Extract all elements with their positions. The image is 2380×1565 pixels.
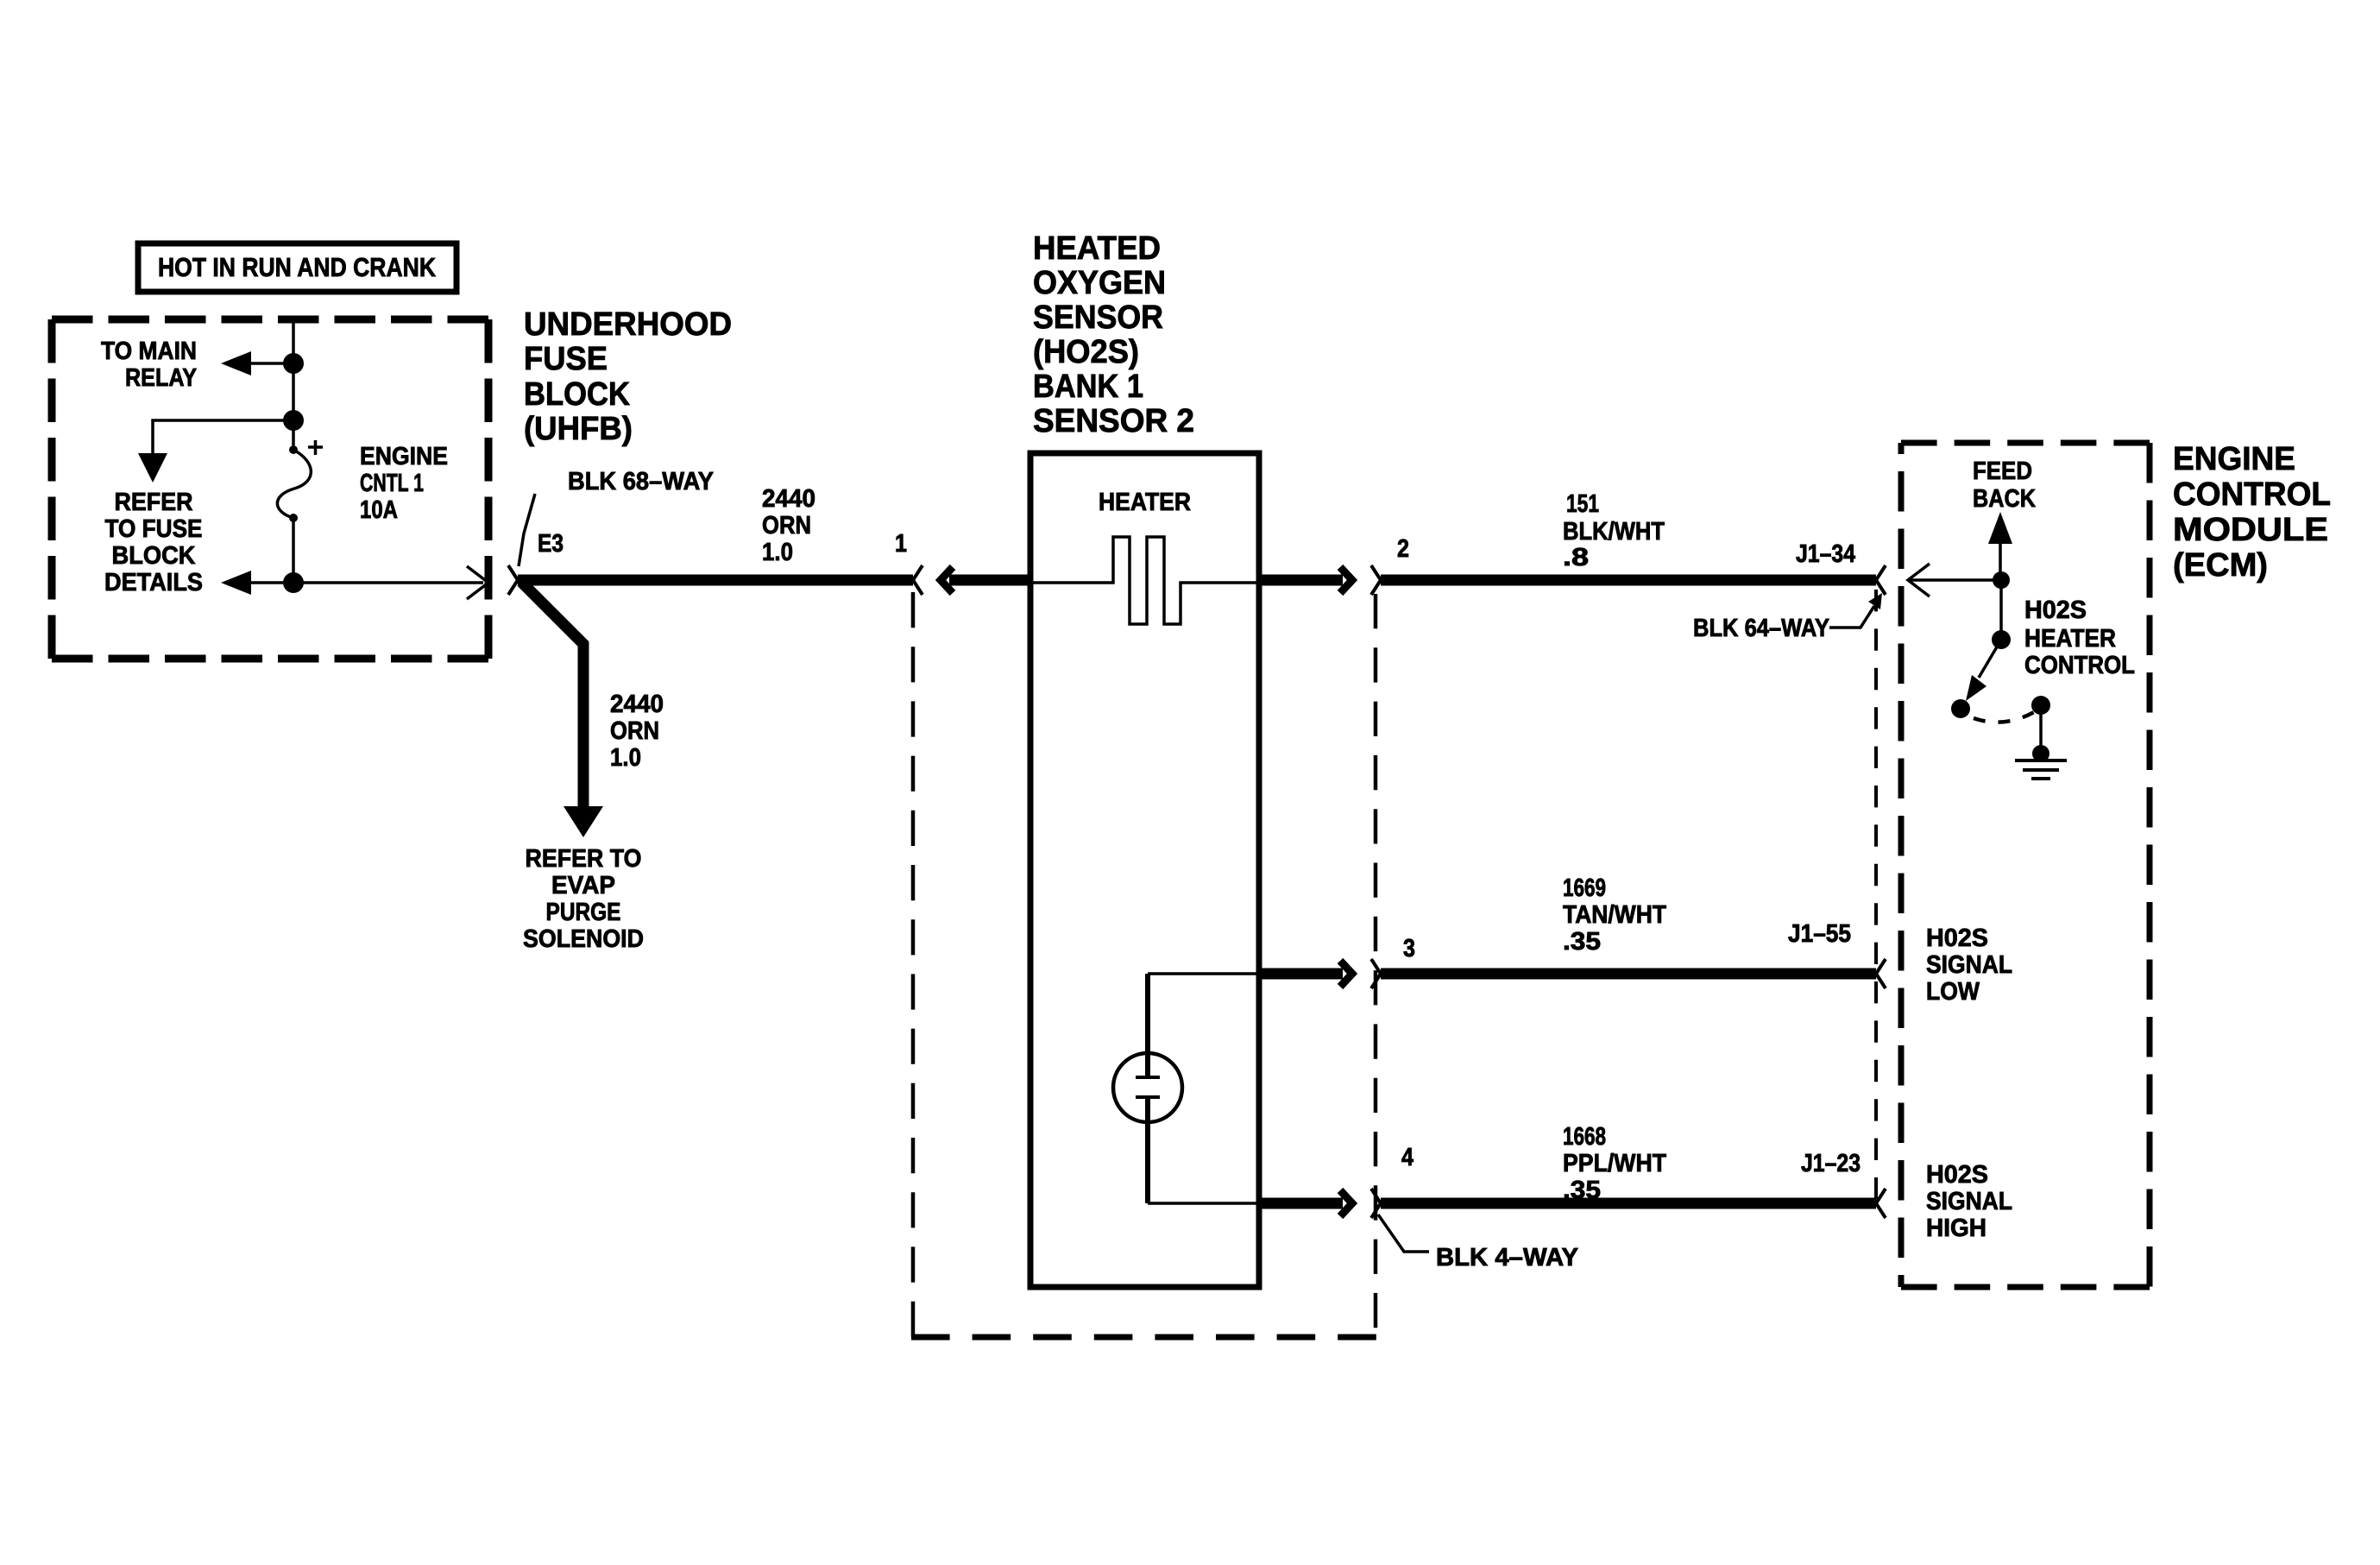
- wire pin3 sensor internal: [1148, 972, 1262, 975]
- svg-text:J1–23: J1–23: [1801, 1150, 1861, 1177]
- connector chevron at E3: [508, 565, 518, 595]
- svg-text:CNTL 1: CNTL 1: [360, 470, 424, 497]
- node feedback junction: [1993, 571, 2010, 589]
- arrow pin4 pointing right: [1340, 1190, 1352, 1216]
- svg-text:BLK 68–WAY: BLK 68–WAY: [568, 468, 714, 495]
- wire pin3 sensor to arrow: [1262, 969, 1343, 980]
- svg-text:1.0: 1.0: [762, 539, 793, 566]
- svg-text:1: 1: [895, 530, 907, 558]
- svg-text:10A: 10A: [360, 496, 398, 524]
- ECM feedback line with open arrow: [1908, 578, 2001, 582]
- wire pin1 inside connector: [949, 575, 1029, 586]
- svg-text:(HO2S): (HO2S): [1033, 334, 1139, 370]
- label H02S SIGNAL LOW: [1926, 924, 2012, 1006]
- svg-text:3: 3: [1403, 935, 1415, 962]
- open arrow at fuse block edge: [467, 566, 488, 599]
- svg-text:H02S: H02S: [1926, 924, 1988, 952]
- svg-text:PURGE: PURGE: [546, 899, 621, 926]
- HO2S sensor box: [1030, 453, 1259, 1287]
- svg-text:ORN: ORN: [610, 717, 659, 745]
- svg-text:J1–34: J1–34: [1796, 540, 1855, 568]
- callout line BLK 68-WAY: [519, 494, 535, 566]
- wire 151 BLK/WHT harness run: [1381, 575, 1876, 586]
- svg-text:PPL/WHT: PPL/WHT: [1563, 1150, 1666, 1177]
- wire B+ vertical bus in fuse block: [292, 319, 295, 445]
- svg-text:UNDERHOOD: UNDERHOOD: [524, 306, 732, 343]
- battery cell sensing element: [1113, 974, 1182, 1203]
- svg-text:H02S: H02S: [2024, 596, 2087, 624]
- svg-text:FEED: FEED: [1973, 458, 2032, 485]
- label 1669 TAN/WHT .35: [1563, 874, 1666, 956]
- wire 2440 ORN branch to EVAP: [521, 582, 583, 810]
- label ENGINE CNTL 1 10A: [360, 443, 448, 524]
- fuse ENGINE CNTL 1 symbol: [277, 440, 323, 522]
- chevron at J1-23 harness end: [1876, 1189, 1886, 1218]
- label H02S SIGNAL HIGH: [1926, 1161, 2012, 1242]
- svg-text:TAN/WHT: TAN/WHT: [1563, 901, 1666, 929]
- svg-text:BLK 64–WAY: BLK 64–WAY: [1693, 615, 1829, 642]
- label ENGINE CONTROL MODULE (ECM): [2173, 441, 2331, 584]
- svg-text:ORN: ORN: [762, 512, 811, 540]
- wire down-left to refer arrow: [153, 420, 293, 458]
- node junction to fuse block details: [283, 410, 304, 431]
- callout line BLK 4-WAY: [1378, 1215, 1429, 1252]
- svg-text:2: 2: [1397, 535, 1409, 563]
- svg-text:.35: .35: [1563, 1177, 1601, 1204]
- arrow to EVAP purge solenoid: [564, 806, 603, 837]
- svg-text:E3: E3: [538, 530, 564, 558]
- chevron at pin2 harness start: [1371, 565, 1381, 595]
- node junction to main relay: [283, 353, 304, 374]
- wire pin2 sensor to arrow: [1262, 575, 1343, 586]
- svg-text:1.0: 1.0: [610, 744, 641, 772]
- wire to main relay: [243, 362, 293, 365]
- connector chevron at pin1 harness side: [913, 565, 922, 595]
- wire pin4 sensor internal: [1148, 1202, 1262, 1205]
- wire 1668 PPL/WHT harness run: [1381, 1198, 1876, 1209]
- node above ground: [2032, 745, 2049, 762]
- heater element: [1029, 537, 1262, 624]
- svg-text:BLOCK: BLOCK: [112, 542, 196, 570]
- switch contact dot left: [1951, 699, 1970, 718]
- label 151 BLK/WHT .8: [1563, 490, 1665, 571]
- svg-text:SENSOR: SENSOR: [1033, 300, 1163, 336]
- svg-text:MODULE: MODULE: [2173, 512, 2328, 548]
- svg-text:SOLENOID: SOLENOID: [523, 925, 644, 953]
- ECM connector dashed line BLK 64-WAY: [1874, 590, 1878, 1215]
- svg-text:ENGINE: ENGINE: [360, 443, 448, 470]
- arrow to main relay: [221, 351, 251, 375]
- svg-text:4: 4: [1401, 1144, 1414, 1171]
- svg-text:151: 151: [1566, 490, 1599, 518]
- svg-text:REFER: REFER: [115, 489, 193, 516]
- svg-text:ENGINE: ENGINE: [2173, 441, 2295, 477]
- arrow pin2 pointing right: [1340, 567, 1352, 593]
- svg-text:SIGNAL: SIGNAL: [1926, 1188, 2012, 1215]
- svg-text:EVAP: EVAP: [551, 872, 615, 899]
- svg-text:H02S: H02S: [1926, 1161, 1988, 1189]
- svg-text:HEATER: HEATER: [1099, 489, 1191, 516]
- node junction fuse output: [283, 572, 304, 593]
- svg-text:CONTROL: CONTROL: [2024, 652, 2135, 679]
- ground symbol: [2015, 760, 2067, 779]
- svg-text:(UHFB): (UHFB): [524, 411, 633, 447]
- svg-text:1668: 1668: [1563, 1123, 1606, 1151]
- svg-text:HIGH: HIGH: [1926, 1215, 1986, 1242]
- svg-text:HEATED: HEATED: [1033, 230, 1161, 267]
- svg-text:LOW: LOW: [1926, 978, 1980, 1006]
- svg-text:DETAILS: DETAILS: [104, 569, 203, 596]
- chevron at J1-55 harness end: [1876, 959, 1886, 988]
- label REFER TO EVAP PURGE SOLENOID: [523, 845, 644, 953]
- svg-text:BLOCK: BLOCK: [524, 376, 630, 413]
- feedback up arrow: [1999, 542, 2002, 580]
- svg-text:HEATER: HEATER: [2024, 625, 2116, 653]
- svg-text:BACK: BACK: [1973, 485, 2036, 513]
- chevron at J1-34 harness end: [1876, 565, 1886, 595]
- callout line BLK 64-WAY: [1829, 606, 1874, 628]
- svg-text:J1–55: J1–55: [1788, 920, 1851, 948]
- label REFER TO FUSE BLOCK DETAILS: [104, 489, 203, 596]
- wire fuse output to E3: [293, 581, 483, 584]
- sensor connector dashed boundary BLK 4-WAY: [911, 592, 916, 1337]
- wire pin4 sensor to arrow: [1262, 1198, 1343, 1209]
- svg-text:TO MAIN: TO MAIN: [101, 338, 197, 365]
- svg-text:CONTROL: CONTROL: [2173, 476, 2331, 513]
- svg-text:.35: .35: [1563, 928, 1601, 956]
- label 1668 PPL/WHT .35: [1563, 1123, 1666, 1204]
- svg-text:(ECM): (ECM): [2173, 547, 2268, 584]
- svg-text:REFER TO: REFER TO: [526, 845, 642, 873]
- svg-text:2440: 2440: [610, 691, 664, 718]
- underhood fuse block dashed box: [52, 316, 488, 324]
- switch blade with arrow: [1979, 640, 2001, 678]
- wire 2440 ORN main run E3 to pin1: [518, 575, 913, 586]
- wire fuse output left arrow: [243, 581, 293, 584]
- svg-text:BLK 4–WAY: BLK 4–WAY: [1436, 1244, 1578, 1272]
- ECM dashed box: [1901, 440, 2150, 446]
- label H02S HEATER CONTROL: [2024, 596, 2135, 679]
- label TO MAIN RELAY: [101, 338, 197, 392]
- hot-in-run title box: [138, 243, 456, 292]
- svg-text:BLK/WHT: BLK/WHT: [1563, 518, 1665, 546]
- label 2440 ORN 1.0 horizontal run: [762, 485, 815, 566]
- arrow pin1 pointing left: [941, 567, 953, 593]
- wire to ground: [2039, 705, 2043, 754]
- arrow down refer to fuse block: [138, 453, 167, 483]
- svg-text:.8: .8: [1563, 544, 1589, 571]
- svg-text:SIGNAL: SIGNAL: [1926, 951, 2012, 979]
- svg-text:SENSOR 2: SENSOR 2: [1033, 403, 1194, 439]
- label 2440 ORN 1.0 branch: [610, 691, 664, 772]
- wire 1669 TAN/WHT harness run: [1381, 969, 1876, 980]
- svg-text:BANK 1: BANK 1: [1033, 369, 1143, 405]
- arrow pin3 pointing right: [1340, 961, 1352, 987]
- node switch pivot: [1992, 630, 2011, 649]
- label HEATED OXYGEN SENSOR (HO2S) BANK 1 SENSOR 2: [1033, 230, 1194, 439]
- svg-text:2440: 2440: [762, 485, 815, 513]
- svg-text:FUSE: FUSE: [524, 341, 608, 377]
- svg-text:TO FUSE: TO FUSE: [105, 515, 203, 543]
- label FEED BACK: [1973, 458, 2036, 513]
- svg-text:RELAY: RELAY: [125, 364, 197, 392]
- wire node to switch: [1999, 580, 2003, 640]
- dashed switch arc: [1974, 712, 2034, 723]
- svg-text:1669: 1669: [1563, 874, 1606, 902]
- svg-text:HOT IN RUN AND CRANK: HOT IN RUN AND CRANK: [158, 252, 437, 282]
- switch contact dot right: [2031, 696, 2050, 715]
- chevron at pin3 harness start: [1371, 959, 1381, 988]
- chevron at pin4 harness start: [1371, 1189, 1381, 1218]
- svg-text:OXYGEN: OXYGEN: [1033, 265, 1166, 301]
- label UNDERHOOD FUSE BLOCK (UHFB): [524, 306, 732, 447]
